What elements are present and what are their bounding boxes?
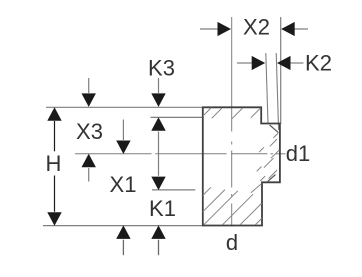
dimension K1 arrows [151, 177, 165, 191]
internal chamfer bottom [268, 175, 276, 182]
centerline vertical (dash-dot) [231, 17, 233, 227]
svg-text:X2: X2 [243, 15, 270, 40]
svg-text:X3: X3 [76, 119, 103, 144]
extension line top (y=107.3) [46, 106, 202, 108]
svg-text:d1: d1 [286, 141, 310, 166]
svg-text:H: H [46, 151, 62, 176]
svg-text:d: d [226, 230, 238, 255]
svg-text:K2: K2 [305, 51, 332, 76]
svg-text:K3: K3 [148, 56, 175, 81]
centerline horizontal (dash-dot) [75, 153, 286, 155]
body outline [203, 107, 280, 225]
svg-text:X1: X1 [110, 172, 137, 197]
dimension K2 line + arrows [237, 62, 252, 64]
extension line K3 bottom (y=117.4) [151, 116, 203, 118]
internal chamfer top [270, 125, 279, 133]
extension line K2 right (slanted) [276, 53, 278, 130]
dimension X3 arrows [88, 78, 90, 93]
dimension X2 line + arrows [200, 28, 219, 30]
extension line K1 top (y=189.9) [152, 189, 195, 191]
extension line X2 right (body right edge extended) [280, 17, 282, 124]
svg-text:K1: K1 [149, 196, 176, 221]
dimension H line + arrows [54, 121, 56, 151]
hatching bottom band [203, 184, 262, 225]
extension line K2 left (slanted) [266, 53, 268, 123]
hatching top band [203, 108, 260, 119]
dimension X1 arrows [122, 120, 124, 141]
hatching right socket [257, 133, 280, 181]
dimension K3 arrows [158, 78, 160, 93]
extension line bottom (y=225.6) [43, 225, 203, 227]
